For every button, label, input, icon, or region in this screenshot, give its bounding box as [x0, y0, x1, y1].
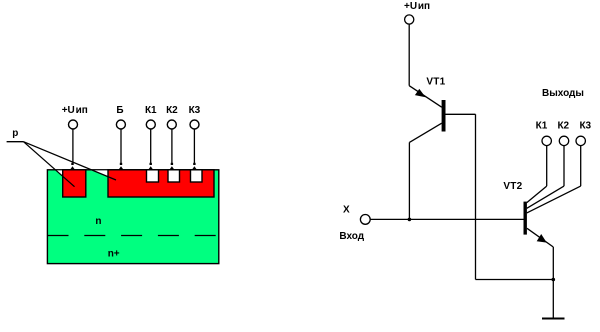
svg-text:VT1: VT1: [426, 76, 445, 87]
svg-text:VT2: VT2: [503, 181, 522, 192]
svg-text:+U ип: +U ип: [404, 1, 430, 12]
svg-text:n+: n+: [108, 249, 120, 260]
svg-text:К3: К3: [189, 105, 201, 116]
svg-text:X: X: [343, 205, 350, 216]
svg-text:К1: К1: [536, 121, 548, 132]
svg-text:n: n: [95, 216, 101, 227]
svg-text:Выходы: Выходы: [542, 88, 584, 99]
svg-text:К2: К2: [166, 105, 178, 116]
svg-text:Б: Б: [116, 105, 123, 116]
svg-text:+U ип: +U ип: [62, 105, 88, 116]
svg-text:p: p: [12, 128, 18, 139]
svg-text:Вход: Вход: [339, 231, 364, 242]
svg-text:К3: К3: [579, 121, 591, 132]
svg-text:К2: К2: [557, 121, 569, 132]
svg-text:К1: К1: [145, 105, 157, 116]
